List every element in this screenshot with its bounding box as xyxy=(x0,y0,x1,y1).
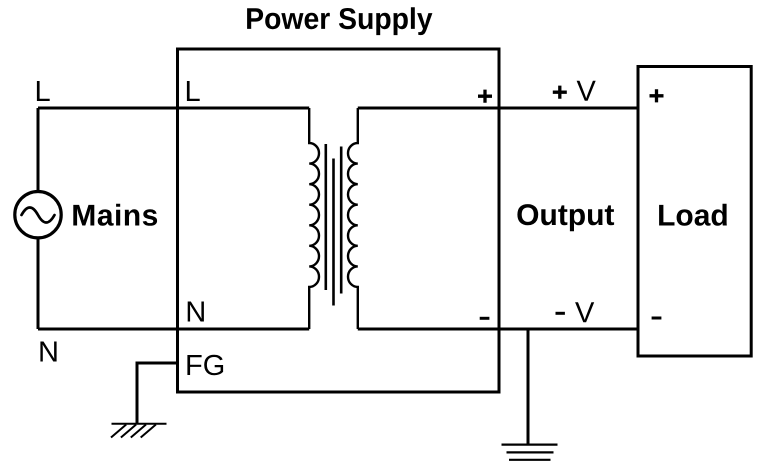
ac source sine wave xyxy=(22,208,55,223)
power supply box U1 xyxy=(178,49,500,392)
node - label (load) xyxy=(652,317,662,320)
label Output xyxy=(517,204,614,231)
label Power Supply xyxy=(247,7,432,35)
wire +V output (secondary to load) xyxy=(358,107,638,110)
wire -V output (secondary to load) xyxy=(358,328,638,331)
transformer T1 primary winding xyxy=(309,108,319,329)
transformer T1 core line 2 xyxy=(332,159,335,306)
transformer T1 core line 1 xyxy=(324,144,327,290)
label Mains xyxy=(73,204,157,226)
ac source V1 circle xyxy=(15,192,61,238)
node L label (inner) xyxy=(187,81,200,101)
wire N bottom (mains to transformer primary) xyxy=(38,328,309,331)
node + V label xyxy=(553,86,567,99)
node FG label xyxy=(187,355,223,376)
load box RL xyxy=(638,67,751,357)
node N label (outer) xyxy=(40,342,56,362)
node + label (inside power supply) xyxy=(478,90,492,103)
node + label (load) xyxy=(650,89,664,102)
node N label (inner) xyxy=(188,302,204,322)
wire output ground xyxy=(527,329,530,445)
earth ground symbol xyxy=(502,445,558,460)
wire FG to chassis ground xyxy=(137,363,178,424)
wire L top (mains to transformer primary) xyxy=(38,107,309,110)
wire mains vertical xyxy=(37,108,40,329)
transformer T1 secondary winding xyxy=(348,108,358,329)
node L label (outer) xyxy=(37,81,50,101)
chassis ground symbol xyxy=(111,424,167,438)
node - V label xyxy=(556,312,565,315)
node - label (inside power supply) xyxy=(480,317,490,320)
label Load xyxy=(659,204,727,226)
transformer T1 core line 3 xyxy=(340,147,343,294)
